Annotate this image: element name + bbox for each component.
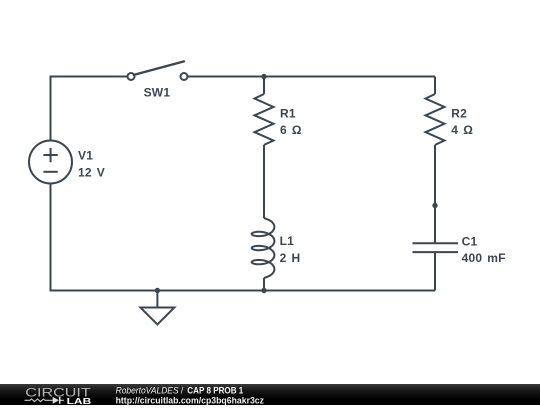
svg-text:SW1: SW1 (144, 86, 171, 100)
svg-text:400 mF: 400 mF (462, 251, 506, 265)
svg-text:LAB: LAB (67, 396, 92, 405)
svg-text:L1: L1 (280, 234, 295, 248)
svg-text:C1: C1 (462, 235, 478, 249)
svg-text:RobertoVALDES: RobertoVALDES (116, 385, 179, 395)
svg-text:V1: V1 (78, 149, 93, 163)
svg-text:/: / (181, 385, 184, 395)
svg-text:http://circuitlab.com/cp3bq6ha: http://circuitlab.com/cp3bq6hakr3cz (116, 396, 265, 406)
svg-text:2 H: 2 H (280, 251, 301, 265)
svg-text:12 V: 12 V (78, 166, 105, 180)
svg-text:R2: R2 (451, 106, 467, 120)
svg-text:6 Ω: 6 Ω (280, 123, 302, 137)
svg-text:R1: R1 (280, 106, 296, 120)
svg-text:4 Ω: 4 Ω (451, 123, 473, 137)
svg-text:CAP 8 PROB 1: CAP 8 PROB 1 (187, 385, 243, 395)
